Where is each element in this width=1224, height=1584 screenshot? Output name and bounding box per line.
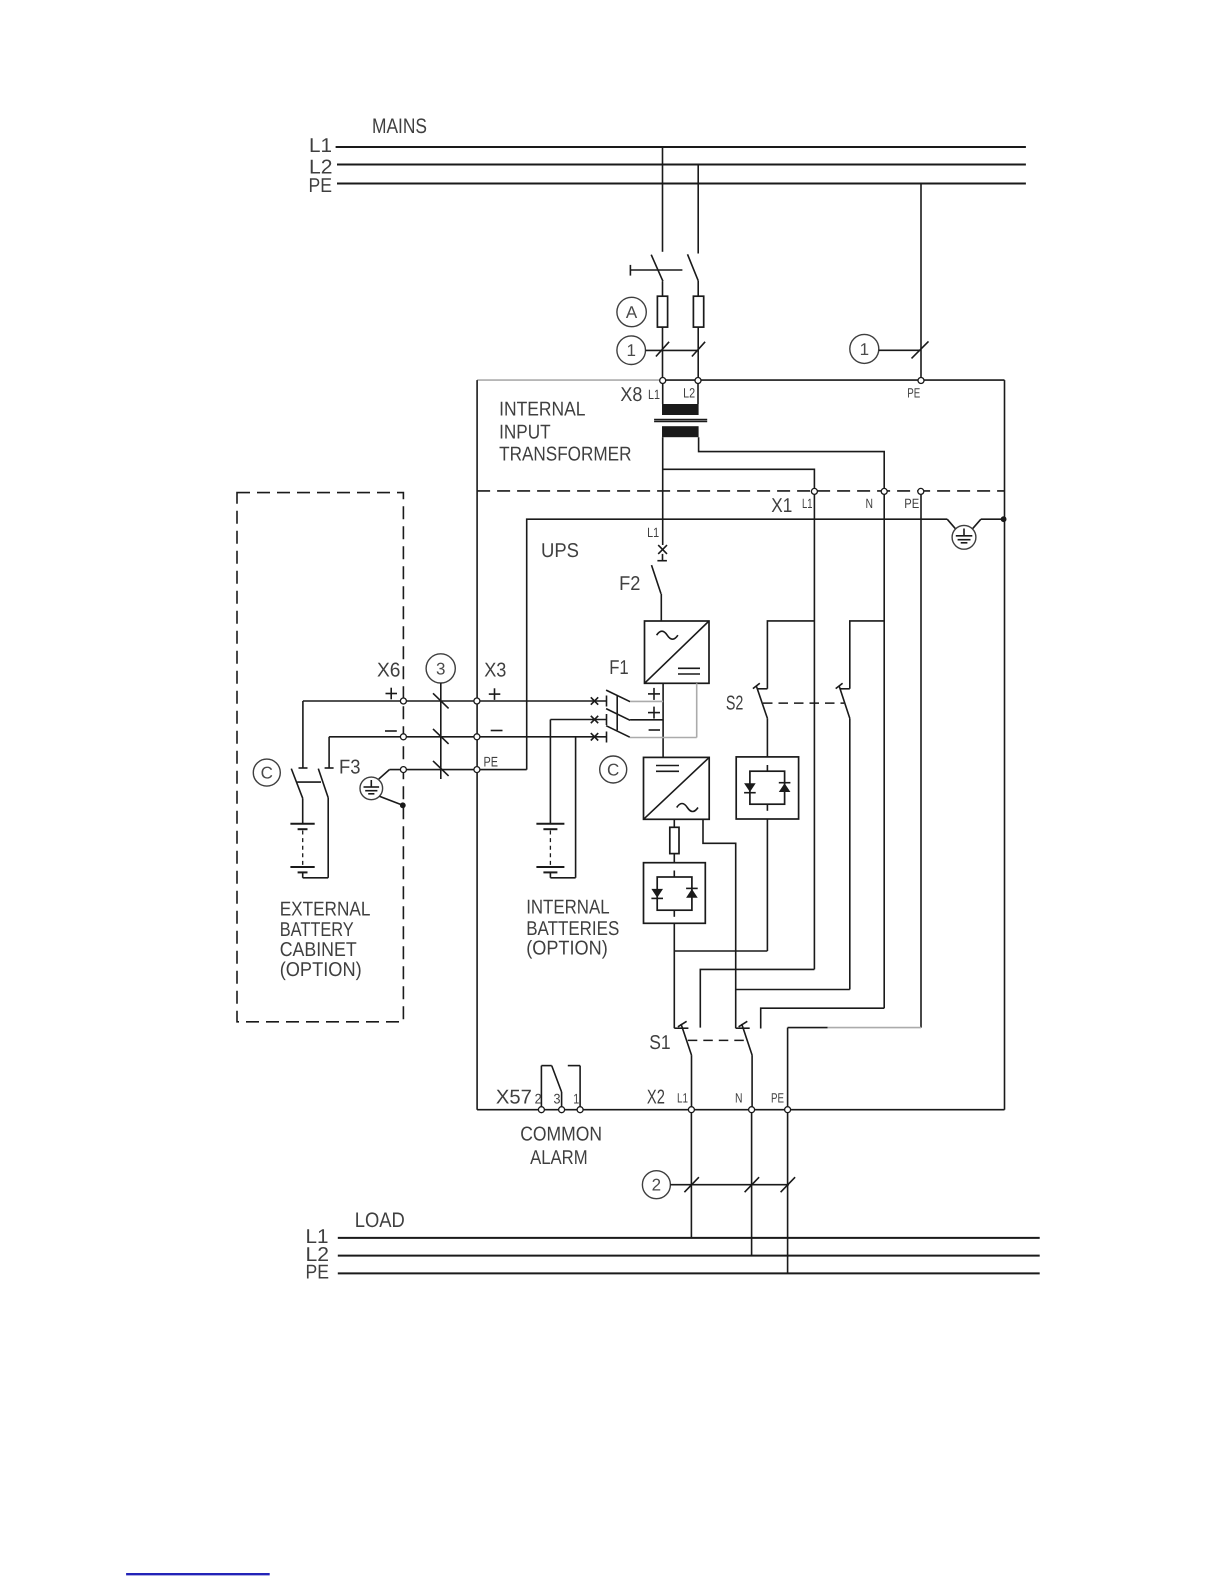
cable marker circle 3 xyxy=(426,654,455,683)
svg-text:BATTERIES: BATTERIES xyxy=(526,918,619,940)
wire static switch output down xyxy=(766,819,768,951)
svg-text:1: 1 xyxy=(573,1091,579,1107)
F1 row3 gray continuation xyxy=(630,737,697,739)
wire secondary L2 jog to X1 N xyxy=(699,437,885,491)
S2 pole2 tick xyxy=(836,683,843,688)
svg-text:X2: X2 xyxy=(647,1087,665,1109)
wire diode box output down to S1 xyxy=(673,923,675,1028)
svg-text:INTERNAL: INTERNAL xyxy=(526,897,609,919)
switch S1 pole2 hook xyxy=(736,1027,750,1029)
svg-text:PE: PE xyxy=(306,1262,330,1284)
switch F2 blade xyxy=(652,565,662,594)
cabinet outer box bottom edge xyxy=(477,1109,1004,1111)
terminal X57-3 xyxy=(559,1107,565,1113)
svg-text:C: C xyxy=(607,761,619,780)
wire inverter output to fuse xyxy=(673,819,675,827)
S1 pole1 blade xyxy=(681,1024,692,1055)
wire H5 PE jog black part xyxy=(788,1027,828,1029)
cable 1 right leader line xyxy=(879,349,921,351)
svg-text:F2: F2 xyxy=(619,573,640,595)
wire PE X6 to UPS xyxy=(389,769,526,771)
cabinet outer box left edge xyxy=(476,380,478,1110)
cabinet outer box top edge black part xyxy=(662,379,1005,381)
cabinet outer box top edge gray part xyxy=(477,379,662,381)
svg-text:ALARM: ALARM xyxy=(530,1147,588,1169)
F1 row2 x-mark xyxy=(591,716,598,723)
label plus F1 row1 xyxy=(648,688,660,700)
svg-text:A: A xyxy=(626,303,638,322)
wire secondary L1 down xyxy=(662,437,664,545)
svg-text:1: 1 xyxy=(626,341,635,360)
svg-text:UPS: UPS xyxy=(541,540,579,562)
svg-text:S2: S2 xyxy=(726,693,744,715)
wire rectifier minus down gray xyxy=(696,683,698,737)
wire L1 drop to breaker xyxy=(662,147,664,252)
wire mains L2 bus xyxy=(337,164,1026,166)
wire H3 bypass L1 jog xyxy=(700,969,814,1027)
earth symbol left xyxy=(360,770,403,806)
svg-text:3: 3 xyxy=(554,1091,561,1107)
wire H4 N jog stub xyxy=(761,1008,885,1028)
breaker Q1 actuator end tick xyxy=(629,265,631,276)
svg-text:L1: L1 xyxy=(802,496,813,511)
switch S1 pole1 hook xyxy=(674,1027,688,1029)
wire X1 L1 bypass down xyxy=(813,491,815,969)
transformer T1 secondary bar xyxy=(662,426,699,437)
svg-text:S1: S1 xyxy=(649,1032,670,1054)
terminal X3 minus xyxy=(474,734,480,740)
terminal X6 PE xyxy=(400,767,406,773)
wire load PE bus xyxy=(338,1272,1040,1274)
S1 link dashed xyxy=(688,1039,747,1041)
svg-text:L1: L1 xyxy=(677,1091,688,1106)
terminal X57-1 xyxy=(577,1107,583,1113)
internal battery plus drop xyxy=(549,720,551,824)
S1 pole2 tick xyxy=(739,1021,748,1027)
svg-text:INPUT: INPUT xyxy=(499,422,550,444)
cable 2 leader line xyxy=(670,1184,789,1186)
external battery cabinet dashed box xyxy=(237,493,403,1022)
fuse switch F1 row2 wire xyxy=(550,719,606,721)
F1 row2 contact bar xyxy=(606,714,608,725)
F1 row2 continuation xyxy=(630,719,663,721)
switch S2 pole1 feed xyxy=(767,621,814,689)
svg-text:L1: L1 xyxy=(648,387,660,402)
terminal X57-2 xyxy=(538,1107,544,1113)
cable 3 leader vertical xyxy=(440,683,442,779)
breaker Q1 actuator bar xyxy=(630,269,682,271)
external battery minus drop xyxy=(328,737,330,768)
S1 pole2 output xyxy=(751,1055,753,1110)
S2 pole1 blade xyxy=(756,686,767,719)
wire X1 PE down xyxy=(920,491,922,1027)
F1 row1 gray continuation xyxy=(630,700,663,702)
F1 row1 x-mark xyxy=(591,697,598,704)
wire L1 fuse to X8 xyxy=(662,327,664,380)
svg-text:INTERNAL: INTERNAL xyxy=(499,399,585,421)
svg-text:L1: L1 xyxy=(647,525,659,540)
S1 pole1 output xyxy=(691,1055,693,1110)
label minus F1 row3 xyxy=(649,729,660,731)
S2 link dashed xyxy=(763,702,844,704)
svg-text:PE: PE xyxy=(484,754,499,770)
terminal X1 N xyxy=(881,488,887,494)
breaker Q1 pole L2 blade xyxy=(688,254,699,280)
S2 pole2 blade xyxy=(839,686,850,719)
svg-text:1: 1 xyxy=(860,340,869,359)
F3 link bar xyxy=(297,781,321,783)
cable 1 slash on L2 xyxy=(692,342,705,357)
fuse disconnect x-mark F2 xyxy=(657,545,667,561)
external battery symbol xyxy=(290,798,328,878)
transformer T1 primary bar xyxy=(662,404,699,415)
label minus X6 xyxy=(385,730,397,732)
svg-text:(OPTION): (OPTION) xyxy=(280,959,362,981)
S2 pole2 hook xyxy=(840,688,850,690)
cable 3 slash on minus xyxy=(433,729,449,744)
svg-text:PE: PE xyxy=(309,175,333,197)
ammeter circle A xyxy=(617,297,646,326)
terminal X3 PE xyxy=(474,767,480,773)
svg-text:X8: X8 xyxy=(620,384,642,406)
F1 row3 contact bar xyxy=(606,732,608,743)
static switch box xyxy=(736,757,798,819)
wire L2 fuse to X8 xyxy=(697,327,699,380)
wire L1 breaker to fuse xyxy=(662,281,664,296)
svg-text:TRANSFORMER: TRANSFORMER xyxy=(499,444,631,466)
wire load L1 bus xyxy=(338,1237,1040,1239)
cable marker circle 2 xyxy=(642,1171,670,1199)
wire H5 PE jog gray part xyxy=(828,1027,921,1029)
svg-text:LOAD: LOAD xyxy=(355,1209,405,1232)
UPS box top edge xyxy=(527,519,948,769)
transformer T1 core lines xyxy=(654,419,707,421)
F1 row1 blade xyxy=(606,690,630,702)
F3 contact bar left xyxy=(299,767,308,769)
S2 pole1 hook xyxy=(758,688,768,690)
wire mains PE bus xyxy=(337,183,1026,185)
terminal X2 PE xyxy=(785,1107,791,1113)
terminal PE entry xyxy=(918,378,924,384)
cable 2 slash on PE xyxy=(781,1177,796,1192)
S2 pole1 tick xyxy=(753,683,760,688)
wire inverter N output jog xyxy=(703,819,736,1028)
svg-text:(OPTION): (OPTION) xyxy=(526,938,608,960)
interlock circle C right xyxy=(600,756,627,783)
S2 pole1 to static switch xyxy=(766,718,768,757)
svg-text:2: 2 xyxy=(535,1091,542,1107)
terminal X3 plus xyxy=(474,698,480,704)
wire X2 N to load xyxy=(751,1110,753,1256)
breaker Q1 pole L1 blade xyxy=(651,255,663,282)
inverter U2 box xyxy=(644,757,710,819)
terminal X6 minus xyxy=(400,734,406,740)
cable 3 slash on PE xyxy=(433,761,449,776)
rectifier U1 box xyxy=(645,621,710,683)
F1 row1 contact bar xyxy=(606,696,608,707)
wire X2 L1 to load xyxy=(690,1110,692,1238)
terminal X8 L1 xyxy=(660,378,666,384)
F1 row3 blade xyxy=(606,726,630,738)
S2 pole2 output down xyxy=(849,718,851,989)
F3 contact bar right xyxy=(325,767,334,769)
terminal X6 plus xyxy=(400,698,406,704)
svg-text:BATTERY: BATTERY xyxy=(280,919,354,941)
wire H2 S2 pole2 to inverter N xyxy=(736,989,850,991)
svg-text:X3: X3 xyxy=(484,660,506,682)
svg-text:X57: X57 xyxy=(496,1087,532,1109)
wire X8 L1 to transformer xyxy=(662,384,664,405)
terminal X8 L2 xyxy=(695,378,701,384)
label plus X6 xyxy=(386,688,398,700)
fuse switch F1 row1 wire xyxy=(303,700,607,702)
terminal X2 L1 xyxy=(688,1107,694,1113)
svg-text:N: N xyxy=(866,496,874,511)
svg-text:MAINS: MAINS xyxy=(372,115,427,138)
svg-text:PE: PE xyxy=(904,496,919,511)
wire L2 breaker to fuse xyxy=(697,281,699,297)
svg-text:F1: F1 xyxy=(609,657,629,679)
fuse L1 xyxy=(657,296,667,327)
wire L2 drop to breaker xyxy=(697,165,699,254)
external battery plus drop xyxy=(302,701,304,768)
wire X2 PE drop xyxy=(787,1028,789,1110)
junction dot earth to battery box edge xyxy=(400,802,406,808)
svg-text:PE: PE xyxy=(771,1091,784,1106)
cable 2 slash on N xyxy=(745,1177,760,1192)
cable 1 slash on PE xyxy=(912,341,929,358)
wire F2 to rectifier xyxy=(660,594,662,621)
svg-text:C: C xyxy=(261,764,273,783)
svg-text:2: 2 xyxy=(652,1176,661,1195)
cable 1 leader line xyxy=(646,349,699,351)
wire fuse to diode box xyxy=(673,854,675,863)
svg-text:EXTERNAL: EXTERNAL xyxy=(280,898,371,920)
label plus F1 row2 xyxy=(648,707,660,719)
switch S2 pole2 feed xyxy=(850,621,884,689)
wire X8 L2 to transformer xyxy=(697,384,699,405)
svg-text:X6: X6 xyxy=(377,660,401,682)
svg-text:X1: X1 xyxy=(771,495,792,517)
S1 pole2 blade xyxy=(742,1024,752,1055)
cable 1 slash on L1 xyxy=(656,342,669,357)
svg-text:L2: L2 xyxy=(683,386,695,401)
wire branch to X1 L1 xyxy=(663,469,815,491)
svg-text:3: 3 xyxy=(436,659,445,678)
F3 blade right xyxy=(318,769,328,798)
wire X2 PE to load xyxy=(787,1110,789,1274)
wire rectifier plus down xyxy=(662,683,664,757)
fuse L2 xyxy=(693,296,703,327)
cable marker circle 1 right (PE) xyxy=(850,334,879,363)
wire H1 static switch to inverter output xyxy=(674,950,767,952)
dashed section boundary xyxy=(477,490,1004,492)
F3 blade left xyxy=(291,769,302,799)
cable 3 slash on plus xyxy=(433,693,449,708)
F1 link bar xyxy=(616,696,618,730)
svg-text:PE: PE xyxy=(907,386,920,401)
battery diode module box xyxy=(644,863,706,924)
terminal X1 PE xyxy=(918,488,924,494)
decorative blue rule xyxy=(126,1573,270,1575)
wire mains L1 bus xyxy=(336,146,1026,148)
cable marker circle 1 left xyxy=(617,336,646,365)
alarm relay contact X57 xyxy=(541,1066,580,1110)
wire X1 N down xyxy=(883,491,885,1008)
svg-text:COMMON: COMMON xyxy=(520,1124,602,1146)
label plus X3 xyxy=(489,688,501,700)
fuse inverter output xyxy=(670,827,679,853)
label minus X3 xyxy=(491,730,503,732)
junction dot UPS PE to cabinet xyxy=(1001,516,1007,522)
fuse switch F1 row3 wire xyxy=(329,736,606,738)
svg-text:CABINET: CABINET xyxy=(280,939,357,961)
svg-text:F3: F3 xyxy=(339,757,361,779)
terminal X1 L1 xyxy=(811,488,817,494)
cable 2 slash on L1 xyxy=(684,1177,699,1192)
interlock circle C left xyxy=(253,759,280,786)
svg-text:L1: L1 xyxy=(309,135,332,157)
terminal X2 N xyxy=(749,1107,755,1113)
wire load L2 bus xyxy=(338,1255,1040,1257)
cabinet outer box right edge xyxy=(1004,380,1006,1110)
S1 pole1 tick xyxy=(678,1021,687,1027)
wire PE drop to cabinet xyxy=(920,184,922,381)
internal battery symbol xyxy=(536,737,575,878)
F1 row2 blade xyxy=(606,709,630,721)
svg-text:N: N xyxy=(735,1091,743,1106)
F1 row3 x-mark xyxy=(591,733,598,740)
earth symbol right xyxy=(947,519,981,549)
